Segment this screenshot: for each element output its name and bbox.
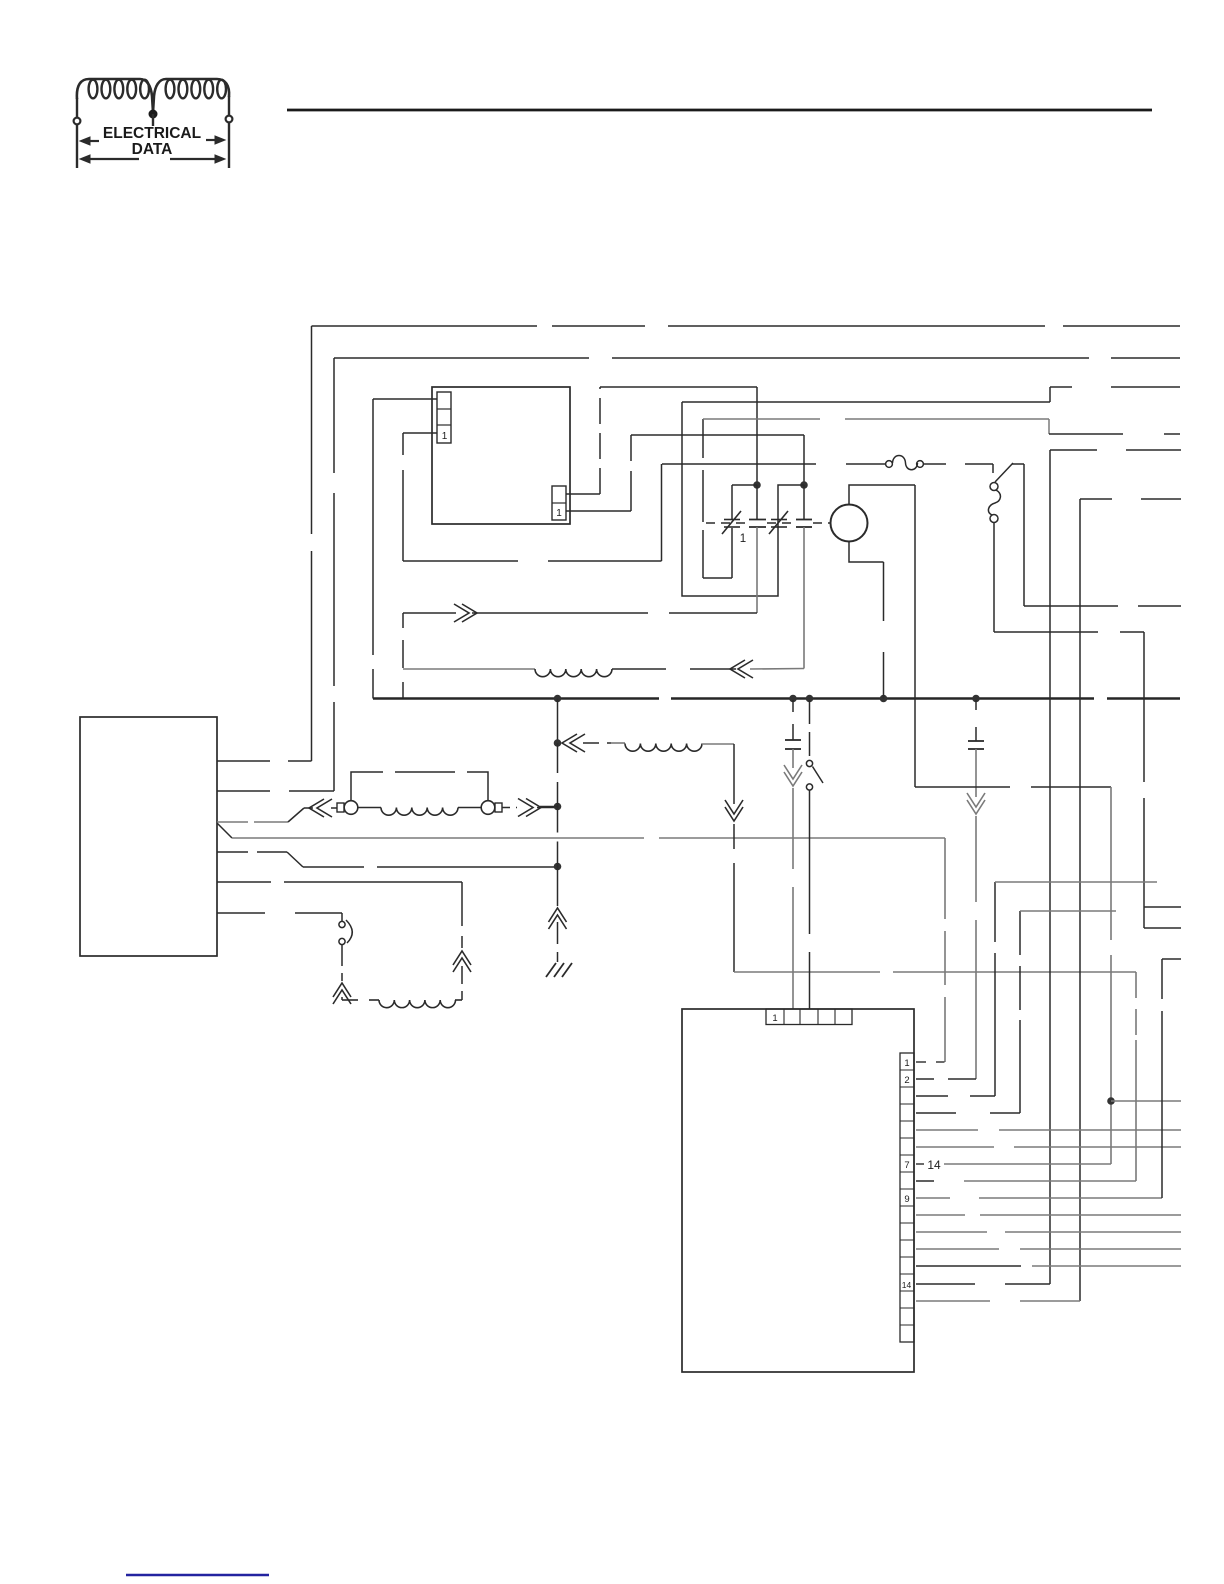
regulator module box (432, 387, 570, 524)
spark plug 1 (722, 511, 741, 534)
wire DPE with jog down (217, 823, 232, 838)
wire field sense with inline connector (217, 821, 248, 823)
plug2 lead down (803, 485, 805, 520)
node battery (554, 739, 562, 747)
wire riser to upper rail (311, 326, 313, 534)
ignition supply coil (611, 742, 625, 744)
svg-text:1: 1 (772, 1013, 777, 1024)
plug1 lead down (756, 485, 758, 520)
pin15 wire (916, 1300, 990, 1302)
logo arrows (80, 136, 225, 163)
drop to pin 14 (1049, 450, 1051, 1284)
node bus 2 (789, 695, 797, 703)
circuit breaker CB1 (992, 464, 994, 473)
pin12 wire (916, 1248, 999, 1250)
svg-text:1: 1 (740, 533, 746, 545)
pin11 wire (916, 1231, 987, 1233)
node pin7 tap (1107, 1097, 1115, 1105)
wire to regulator pin 1 (403, 432, 437, 434)
node ignition T2 (800, 481, 808, 489)
wire to controller pin 8 (734, 971, 880, 973)
alternator box (80, 717, 217, 956)
capacitor C2 (975, 700, 977, 710)
rail y450 (1050, 449, 1097, 451)
pin4 wire (916, 1112, 956, 1114)
starter switch SW1 (341, 913, 343, 921)
section logo: two-coil electrical-data symbol (77, 79, 229, 112)
wire riser second rail (333, 358, 335, 473)
starter bottom lead (849, 542, 884, 563)
regulator right connector (552, 486, 566, 520)
pin6 wire (916, 1146, 995, 1148)
oil pressure switch (809, 700, 811, 760)
breaker top rail (1023, 464, 1025, 606)
rail y499 (1080, 498, 1112, 500)
controller box (682, 1009, 914, 1372)
svg-text:14: 14 (902, 1280, 912, 1290)
capacitor C1 (792, 700, 794, 712)
field loop top (351, 772, 488, 800)
wire starter contact (217, 912, 265, 914)
svg-text:2: 2 (904, 1075, 909, 1086)
node bus 3 (806, 695, 814, 703)
svg-text:DATA: DATA (132, 141, 173, 158)
pin13 wire (916, 1265, 1021, 1267)
brush terminal right (481, 801, 495, 815)
plug1 cap plates (749, 519, 766, 521)
footer link line (126, 1574, 269, 1576)
node bus 5 (972, 695, 980, 703)
connector arrow battery (562, 734, 577, 752)
connector arrow kill wire (454, 604, 469, 622)
kill wire to plugs (403, 612, 456, 614)
logo left lead (76, 98, 78, 168)
header rule (287, 109, 1152, 112)
fuse F1 (662, 463, 816, 465)
svg-text:1: 1 (904, 1058, 909, 1069)
connector arrow on starter wire (333, 983, 351, 997)
svg-text:14: 14 (927, 1158, 941, 1172)
svg-text:1: 1 (442, 431, 448, 442)
wire pin1 to coil T2 (566, 510, 631, 512)
choke solenoid coil (342, 999, 358, 1001)
rail from loop2 (682, 401, 1050, 403)
brush terminal left (344, 801, 358, 815)
connector plug P3 (518, 799, 533, 817)
pin10 wire (916, 1214, 965, 1216)
plug2 cap plates (796, 519, 812, 521)
pin7 wire label 14 (916, 1163, 924, 1165)
pin2 wire (916, 1078, 934, 1080)
node sense join (554, 863, 562, 871)
node bus 1 (554, 695, 562, 703)
charge winding (535, 669, 612, 677)
logo right terminal (226, 116, 233, 123)
logo center tap (149, 110, 158, 119)
wire DPE drop to controller pin 1 (944, 838, 946, 919)
wire 66 second rail (334, 357, 589, 359)
connector plug P2 (309, 799, 324, 817)
logo left terminal (74, 118, 81, 125)
pin14 wire (916, 1283, 975, 1285)
connector arrow return (730, 660, 745, 678)
wire 44 upper rail (312, 325, 538, 327)
rail from loop1 (703, 418, 820, 420)
ignition primary loop 1 (732, 484, 757, 486)
starter drop to bus (883, 562, 885, 621)
svg-text:ELECTRICAL: ELECTRICAL (103, 125, 201, 142)
breaker out rail (994, 631, 1098, 633)
battery bus (373, 697, 659, 699)
pin5 wire (916, 1129, 979, 1131)
drop from regulator to battery bus (372, 399, 374, 655)
ground (546, 963, 572, 977)
node bus 4 (880, 695, 888, 703)
battery positive drop (557, 699, 559, 744)
wire sense jog down (217, 851, 248, 853)
regulator left connector (437, 392, 451, 443)
pin8 wire (916, 1180, 934, 1182)
pin1 wire (916, 1061, 926, 1063)
spark gap row (706, 522, 748, 524)
controller top connector (766, 1009, 852, 1025)
svg-text:9: 9 (904, 1194, 909, 1205)
node ignition T1 (753, 481, 761, 489)
starter motor (831, 505, 868, 542)
svg-text:7: 7 (904, 1160, 909, 1171)
choke drop with connector arrow (461, 882, 463, 948)
field winding (358, 807, 381, 809)
logo right lead (228, 96, 230, 168)
wire to controller pin 7 (915, 786, 1010, 788)
ignition rail from connector (566, 493, 600, 495)
riser to fuse line (661, 464, 663, 561)
svg-text:1: 1 (556, 508, 562, 519)
node field supply (554, 803, 562, 811)
pin9 wire (916, 1197, 950, 1199)
controller right connector (900, 1053, 914, 1342)
ignition primary loop 2 (682, 402, 804, 596)
wire choke feed (217, 881, 271, 883)
starter top lead (849, 485, 915, 505)
ground lead (557, 867, 559, 907)
drop to pin 15 (1079, 499, 1081, 1301)
ignition supply drop (733, 744, 735, 804)
pin3 wire (916, 1095, 948, 1097)
spark plug 2 (769, 511, 788, 534)
magneto return wire (403, 668, 535, 670)
wire to regulator top pin (373, 398, 437, 400)
